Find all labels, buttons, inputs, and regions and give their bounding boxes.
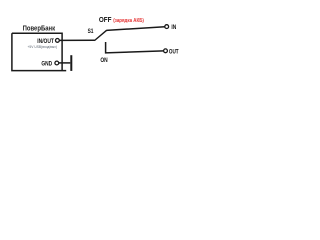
power bank box U1 (12, 33, 66, 70)
background (0, 0, 199, 90)
svg-text:S1: S1 (88, 28, 94, 35)
switch ON contact stub (106, 42, 164, 53)
wire GND to connector bar (59, 62, 71, 64)
terminal IN circle (165, 25, 169, 29)
svg-text:OUT: OUT (169, 48, 179, 55)
svg-text:IN: IN (171, 24, 176, 31)
svg-text:OFF: OFF (99, 17, 112, 24)
pin GND terminal circle (55, 61, 59, 65)
svg-text:ON: ON (100, 57, 108, 64)
svg-text:(зарядка АКБ): (зарядка АКБ) (113, 18, 144, 24)
switch S1 lever (94, 30, 106, 40)
svg-text:GND: GND (41, 60, 52, 67)
wire IN/OUT to switch common (59, 39, 94, 41)
terminal OUT circle (164, 49, 168, 53)
pin IN/OUT terminal circle (56, 39, 60, 43)
svg-text:ПоверБанк: ПоверБанк (23, 23, 56, 32)
connector bar (plug) (70, 55, 72, 71)
wire OFF throw to IN terminal (106, 27, 164, 31)
svg-text:+5V USB(вход/вых): +5V USB(вход/вых) (28, 44, 58, 49)
